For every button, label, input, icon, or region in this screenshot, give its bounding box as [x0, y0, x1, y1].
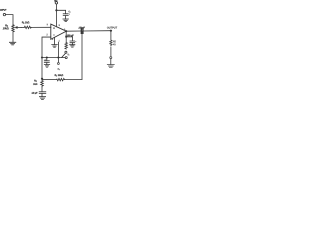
- wire to bypass cap C1: [56, 10, 65, 13]
- wire input terminal to pot: [6, 15, 13, 25]
- capacitor C5: [44, 61, 49, 63]
- jack terminal circle: [110, 57, 112, 59]
- label C5: [45, 59, 47, 61]
- wire pot bottom to ground: [12, 32, 14, 42]
- wire apex down: [65, 31, 67, 42]
- ground (load): [107, 65, 114, 68]
- potentiometer Ra label: [5, 25, 8, 27]
- supply terminal: [55, 2, 58, 5]
- wire Rb to op-amp +in: [31, 26, 51, 28]
- label R2 39k: [55, 74, 63, 76]
- wire cap to output terminal: [83, 30, 111, 32]
- op-amp plus sign: [53, 27, 54, 28]
- potentiometer wiper arrowhead: [15, 26, 18, 28]
- op-amp U1: [51, 24, 67, 39]
- node INPUT label: [0, 9, 6, 10]
- pin 1 label: [58, 40, 61, 41]
- capacitor C1: [63, 14, 68, 16]
- supply terminal label 9V (clipped at top): [54, 0, 57, 2]
- label 10uF: [32, 92, 38, 94]
- capacitor C3 250uF: [81, 29, 83, 34]
- junction left rail bottom: [41, 78, 43, 80]
- feedback rail down from cap: [81, 31, 83, 79]
- wire R3 to C4: [41, 87, 43, 92]
- junction output apex: [65, 30, 67, 32]
- capacitor C4 10uF: [39, 92, 46, 94]
- wire arrow tail to Rb: [21, 26, 24, 28]
- pin 2 label: [46, 34, 49, 35]
- switch S1 bottom terminal: [65, 57, 67, 59]
- potentiometer wiper arrow wire: [17, 26, 21, 28]
- wire bottom feedback: [64, 78, 82, 80]
- switch S1 lever: [62, 54, 65, 58]
- wire C2 to ground: [72, 43, 74, 45]
- node OUTPUT label: [107, 27, 117, 29]
- wire -in to left rail: [42, 37, 51, 79]
- polarity mark C2: [74, 40, 77, 43]
- potentiometer Ra body: [12, 25, 14, 32]
- wire feedback node horizontal: [42, 57, 65, 59]
- resistor R3 1k (vertical): [41, 80, 44, 87]
- junction cap branch: [46, 57, 48, 59]
- junction fb node: [58, 57, 60, 59]
- wire C4 to ground: [41, 94, 43, 97]
- junction output node: [110, 30, 112, 32]
- op-amp minus sign: [53, 34, 54, 36]
- resistor Rf (gain): [65, 43, 67, 50]
- input terminal J1: [3, 13, 5, 15]
- junction 100uF branch: [65, 36, 67, 38]
- ground (C4): [39, 97, 45, 100]
- switch S1 label: [67, 54, 69, 56]
- wire 39k to left rail: [42, 79, 57, 81]
- wire output node down to RL: [110, 31, 112, 40]
- pin 4 label: [52, 39, 53, 40]
- label R3: [34, 80, 36, 82]
- junction supply/bypass: [55, 9, 57, 11]
- wire jack to ground: [110, 59, 112, 65]
- ground (pot): [9, 42, 15, 45]
- wire C1 to ground: [65, 16, 67, 19]
- junction -in rail / fb wire: [41, 57, 43, 59]
- ground (op-amp pin4): [52, 45, 58, 48]
- capacitor C1 label: [69, 11, 71, 13]
- wire output to coupling cap: [66, 30, 81, 32]
- terminal circle below junction: [57, 63, 59, 65]
- cap branch wire: [46, 58, 48, 61]
- switch S1 top terminal: [65, 51, 67, 53]
- ground (C1): [63, 19, 69, 21]
- label R2 upper: [58, 68, 60, 70]
- wire C5 to ground: [46, 63, 48, 65]
- label RL: [113, 41, 116, 42]
- capacitor C2 100uF: [70, 41, 75, 43]
- wire 100uF branch: [66, 37, 72, 41]
- label +100uF: [66, 35, 74, 37]
- op-amp pin4 stub: [54, 37, 56, 44]
- resistor RL: [110, 40, 112, 46]
- pin 6 label: [58, 24, 61, 25]
- stub below junction: [57, 58, 59, 63]
- resistor Rb: [24, 26, 31, 28]
- pin 1 stub wire: [57, 42, 59, 57]
- capacitor C3 label: [79, 27, 85, 29]
- wire V+ to op-amp pin6: [55, 4, 57, 27]
- wire RL to jack: [110, 47, 112, 56]
- pin 5 label: [64, 29, 65, 30]
- ground (C5): [44, 65, 49, 68]
- resistor Rf2 39k: [57, 78, 65, 80]
- ground (C2): [70, 45, 75, 47]
- resistor Rb label: [22, 21, 29, 23]
- pin 3 label: [47, 24, 48, 25]
